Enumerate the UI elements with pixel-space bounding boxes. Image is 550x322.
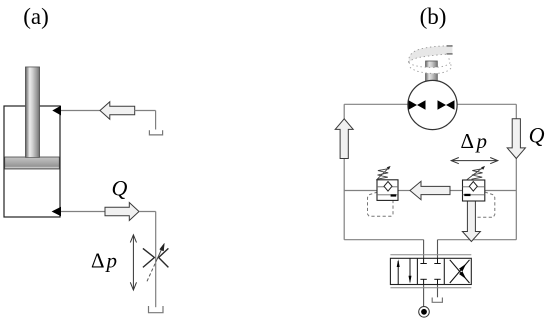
svg-text:Δp: Δp: [91, 249, 119, 273]
svg-text:(a): (a): [23, 4, 49, 29]
svg-text:Q: Q: [111, 176, 127, 201]
svg-text:Δp: Δp: [461, 129, 490, 153]
svg-text:Q: Q: [529, 123, 545, 148]
svg-text:(b): (b): [420, 4, 447, 29]
